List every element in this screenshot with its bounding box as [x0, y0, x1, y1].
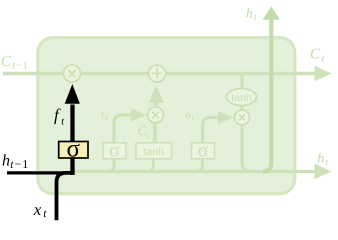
svg-text:C: C: [1, 54, 12, 70]
wire bottom h line faded: [74, 170, 315, 173]
wire branch to tanh box: [147, 159, 154, 172]
node h_t-1 label black: [2, 153, 29, 172]
node o_t label: [186, 110, 195, 123]
svg-text:C: C: [310, 47, 321, 63]
node h_t top label: [246, 6, 257, 24]
wire x_t black: [57, 173, 73, 220]
wire branch to input sigma: [107, 159, 114, 172]
op mult circle input: [148, 107, 164, 123]
op mult circle output: [235, 110, 250, 125]
arrowhead into plus: [149, 86, 164, 104]
arrowhead h_t right: [315, 164, 332, 180]
gate forget sigma box yellow: [59, 136, 88, 163]
wire forget vertical black: [70, 105, 74, 175]
arrowhead C_t: [315, 66, 332, 82]
svg-text:h: h: [318, 151, 325, 166]
node C_t-1 label: [1, 54, 29, 72]
node i_t label: [101, 109, 109, 122]
arrowhead h_t top: [263, 6, 280, 19]
svg-text:i: i: [101, 109, 104, 120]
gate input sigma box: [103, 139, 126, 161]
svg-text:tanh: tanh: [143, 146, 164, 158]
wire output sigma to right mult: [203, 118, 219, 144]
svg-text:tanh: tanh: [231, 92, 252, 104]
svg-text:t: t: [322, 54, 325, 65]
svg-text:h: h: [246, 6, 253, 21]
wire h_t top branch: [263, 20, 271, 172]
node C~_t label: [138, 119, 150, 141]
svg-text:t: t: [326, 158, 329, 168]
svg-text:t: t: [43, 208, 47, 220]
gate tanh box: [136, 143, 172, 159]
arrowhead into right mult: [218, 111, 234, 124]
wire tanh box to mult circle: [153, 123, 158, 144]
svg-text:~: ~: [140, 119, 146, 131]
gate output sigma box: [192, 139, 215, 161]
node f_t label black: [54, 106, 65, 128]
svg-text:σ: σ: [198, 139, 209, 161]
svg-text:−1: −1: [15, 157, 30, 171]
node x_t label black: [33, 200, 48, 220]
op tanh oval: [227, 89, 257, 106]
wire input mult up to plus: [154, 102, 158, 108]
op plus circle: [149, 65, 166, 82]
svg-text:h: h: [2, 153, 10, 170]
svg-text:t: t: [254, 13, 257, 23]
arrowhead f_t into mult black: [65, 84, 80, 104]
wire input sigma to mult circle: [114, 115, 131, 143]
svg-text:σ: σ: [67, 136, 81, 163]
cell body: [38, 38, 295, 194]
svg-text:−1: −1: [16, 61, 29, 72]
node C_t label: [310, 47, 325, 65]
arrowhead into input mult: [131, 109, 147, 122]
op mult circle left (forget): [64, 65, 81, 82]
svg-text:σ: σ: [109, 139, 120, 161]
wire C line horizontal: [3, 72, 315, 75]
wire C branch down through tanh oval: [242, 74, 251, 172]
node h_t right label: [318, 151, 329, 169]
wire h_t-1 black: [7, 171, 73, 174]
svg-text:x: x: [33, 200, 42, 219]
wire branch to output sigma: [196, 159, 203, 172]
svg-text:o: o: [186, 110, 191, 121]
